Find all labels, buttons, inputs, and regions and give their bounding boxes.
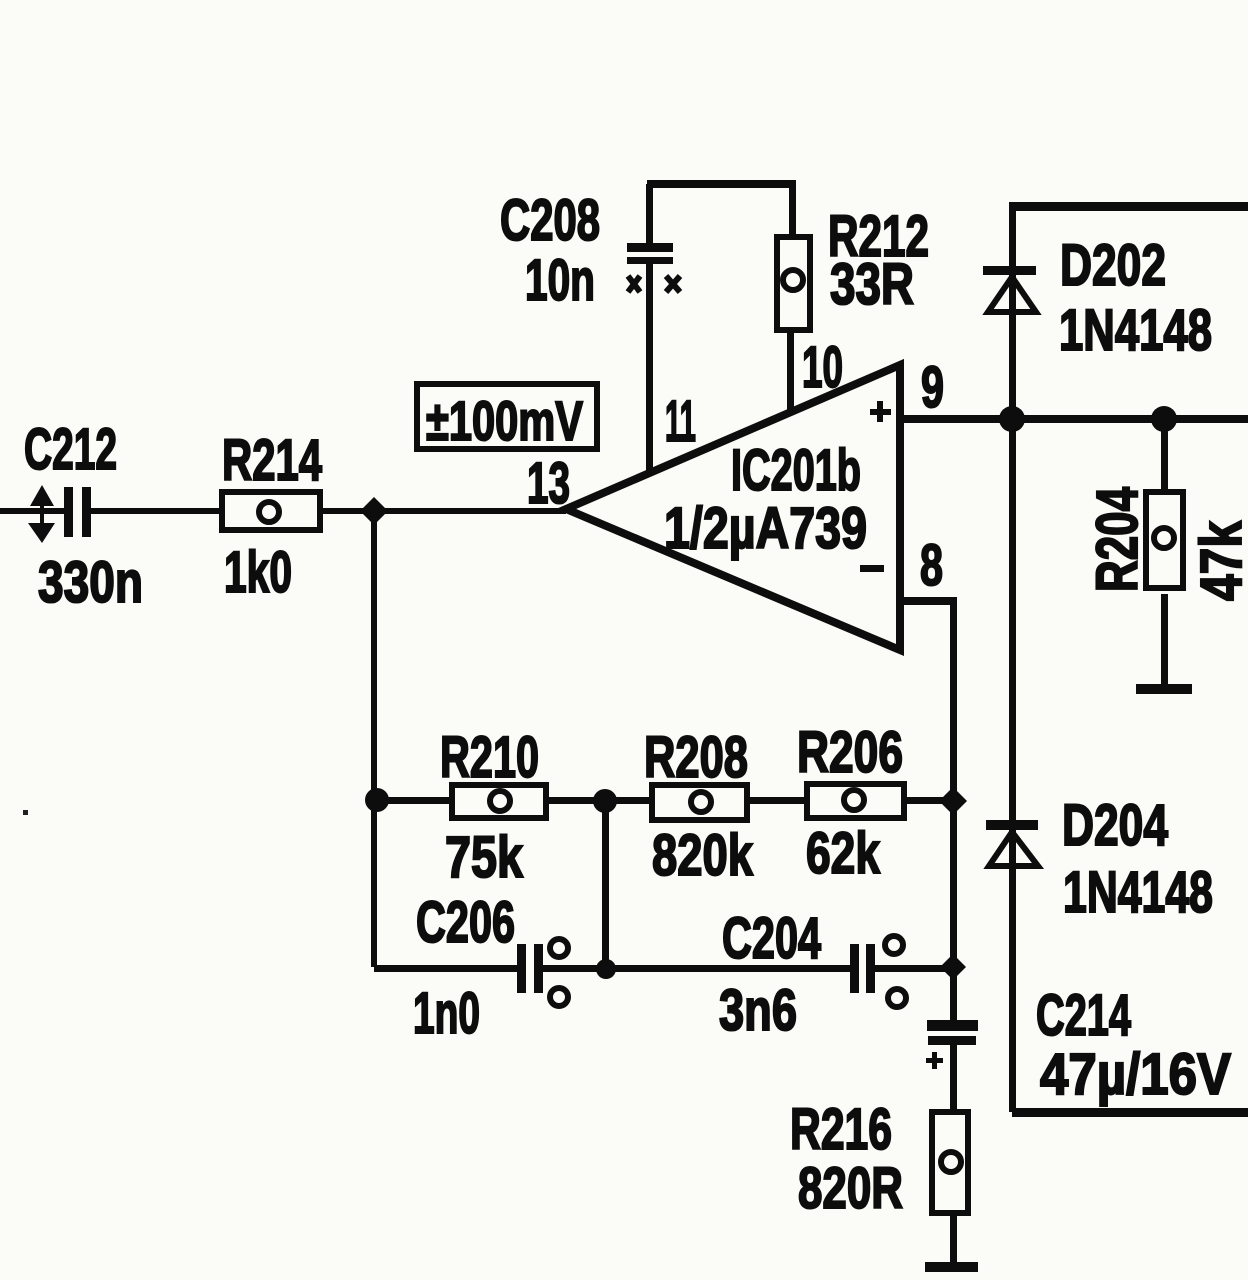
svg-text:D202: D202: [1060, 233, 1166, 298]
node junction bottom right: [940, 954, 966, 980]
wire R214 to op-amp input: [320, 508, 566, 514]
wire C204 to right junction: [874, 965, 957, 972]
wire top loop to R212: [789, 188, 796, 234]
svg-text:C214: C214: [1036, 983, 1131, 1048]
wire bottom row left: [374, 965, 517, 972]
op-amp - input mark: [860, 565, 884, 572]
wire junction to R210: [377, 797, 449, 804]
svg-text:820k: 820k: [652, 823, 754, 888]
svg-text:47µ/16V: 47µ/16V: [1040, 1042, 1231, 1107]
svg-text:C212: C212: [24, 417, 117, 482]
svg-text:1/2µA739: 1/2µA739: [664, 496, 867, 561]
wire bottom rail of right block: [1012, 1108, 1248, 1117]
svg-text:10: 10: [802, 335, 843, 400]
svg-text:8: 8: [920, 533, 943, 598]
wire pin 8 vertical down: [950, 601, 957, 1020]
resistor R210: [452, 785, 546, 818]
ground bar below R216: [925, 1262, 978, 1272]
capacitor C206: [517, 939, 568, 1006]
node junction at input: [360, 497, 388, 525]
scan speck: [23, 810, 28, 815]
svg-text:9: 9: [921, 355, 944, 420]
svg-text:±100mV: ±100mV: [426, 389, 583, 452]
wire R210 to junction: [549, 797, 652, 804]
wire junction down to feedback network: [371, 511, 377, 967]
signal level box ±100mV: [417, 384, 597, 449]
diode D204: [986, 820, 1038, 866]
node junction feedback left: [365, 788, 389, 812]
capacitor C204: [850, 936, 906, 1007]
svg-text:820R: 820R: [798, 1156, 903, 1221]
resistor R214: [222, 492, 320, 530]
wire pin 8 horizontal: [900, 597, 957, 605]
svg-text:33R: 33R: [830, 252, 914, 317]
wire C206 to mid junction: [543, 965, 608, 972]
wire R204 top stub: [1161, 423, 1168, 489]
svg-text:R214: R214: [222, 428, 322, 493]
svg-text:1N4148: 1N4148: [1063, 860, 1213, 925]
svg-text:R208: R208: [644, 725, 748, 790]
resistor R204: [1146, 492, 1183, 588]
wire top loop: [647, 180, 796, 188]
wire R206 to right junction: [904, 797, 957, 804]
svg-text:R204: R204: [1085, 487, 1150, 592]
svg-text:47k: 47k: [1189, 520, 1248, 601]
op-amp IC201b triangle: [566, 365, 900, 650]
svg-text:C204: C204: [722, 906, 821, 971]
wire pin 11 from C208 down to op-amp: [646, 264, 653, 474]
node junction mid feedback: [593, 789, 617, 813]
resistor R206: [807, 784, 904, 818]
svg-text:1k0: 1k0: [224, 540, 292, 605]
resistor R212: [777, 237, 810, 330]
capacitor C214 (electrolytic): [926, 1020, 978, 1069]
svg-text:330n: 330n: [38, 550, 143, 615]
svg-text:1n0: 1n0: [413, 981, 480, 1046]
svg-text:IC201b: IC201b: [731, 438, 861, 503]
wire vertical mid junction down: [602, 800, 609, 968]
node junction output/R204: [1151, 406, 1177, 432]
wire vertical through D202/D204: [1009, 206, 1016, 1112]
resistor R216: [932, 1112, 968, 1213]
capacitor C208: [627, 243, 680, 292]
svg-text:62k: 62k: [806, 821, 881, 886]
svg-text:3n6: 3n6: [719, 978, 797, 1043]
wire R216 bottom stub: [950, 1216, 957, 1262]
node junction feedback right: [939, 787, 967, 815]
wire input left segment: [0, 508, 66, 514]
wire R204 bottom stub: [1161, 594, 1168, 684]
node junction bottom mid: [596, 959, 616, 979]
svg-text:R216: R216: [790, 1097, 892, 1162]
diode D202: [983, 266, 1036, 312]
svg-text:C206: C206: [416, 890, 515, 955]
svg-text:75k: 75k: [445, 825, 524, 890]
resistor R208: [652, 785, 747, 820]
wire R212 to pin 10: [787, 333, 794, 411]
capacitor C212: [28, 485, 91, 543]
svg-text:10n: 10n: [525, 248, 595, 313]
svg-text:R206: R206: [797, 720, 903, 785]
wire C208 up stub: [646, 184, 653, 244]
op-amp + input mark: [870, 401, 891, 422]
wire R208 to R206: [750, 797, 804, 804]
svg-text:R210: R210: [440, 725, 539, 790]
wire mid junction to C204: [608, 965, 850, 972]
wire output pin 9: [900, 415, 1248, 423]
svg-text:11: 11: [665, 389, 696, 454]
wire top rail of right block: [1009, 202, 1248, 211]
svg-text:D204: D204: [1062, 793, 1168, 858]
node junction output/diode: [999, 406, 1025, 432]
wire C214 to R216: [950, 1044, 957, 1109]
ground bar below R204: [1136, 684, 1192, 694]
svg-text:C208: C208: [500, 188, 600, 253]
svg-text:1N4148: 1N4148: [1059, 298, 1212, 363]
wire C212 to R214: [90, 508, 222, 514]
